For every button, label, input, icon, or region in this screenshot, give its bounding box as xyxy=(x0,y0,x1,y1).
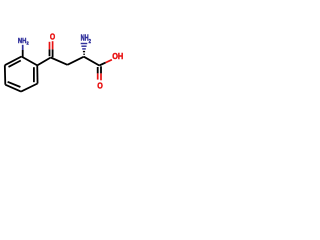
svg-text:NH: NH xyxy=(18,36,27,45)
benzene ring edge B-BL xyxy=(5,85,21,92)
carboxyl C4=O line B black half xyxy=(100,66,102,73)
svg-text:2: 2 xyxy=(27,40,29,46)
benzene ring edge BL-TL xyxy=(4,65,7,85)
chiral NH2 label xyxy=(81,34,91,45)
benzene ring edge TR-BR xyxy=(36,65,38,83)
stereo hash wedge C3-NH2 xyxy=(81,44,88,55)
aniline N-C bond blue half xyxy=(22,45,24,50)
bond C3 to C4 xyxy=(84,57,100,66)
svg-text:NH: NH xyxy=(81,34,89,43)
C4-OH bond red half xyxy=(106,60,112,63)
benzene inner double bond T-TL xyxy=(9,61,21,67)
ketone C1=O line A red half xyxy=(49,42,51,50)
aniline NH2 label xyxy=(18,36,29,47)
ketone C1=O line B black half xyxy=(52,49,54,57)
benzene ring edge TL-T xyxy=(5,57,22,66)
svg-text:O: O xyxy=(97,81,103,90)
aniline N-C bond black half xyxy=(22,50,24,57)
benzene inner double bond B-BL xyxy=(8,82,21,87)
carboxyl C4=O line B red half xyxy=(100,73,102,80)
bond C1 to C2 xyxy=(51,58,68,65)
ketone C1=O line B red half xyxy=(52,41,54,49)
svg-text:OH: OH xyxy=(112,52,123,61)
bond TR to carbonyl C1 xyxy=(37,58,50,66)
C4-OH bond black half xyxy=(99,63,105,66)
benzene ring edge BR-B xyxy=(21,84,38,92)
svg-text:O: O xyxy=(50,33,55,42)
carboxyl C4=O line A red half xyxy=(97,73,99,79)
benzene ring edge T-TR xyxy=(22,57,38,66)
svg-text:2: 2 xyxy=(89,39,91,45)
benzene inner double bond TR-BR xyxy=(33,67,35,82)
bond C2 to C3 xyxy=(67,57,83,65)
carboxyl C4=O line A black half xyxy=(97,67,99,73)
ketone C1=O line A black half xyxy=(49,49,51,56)
